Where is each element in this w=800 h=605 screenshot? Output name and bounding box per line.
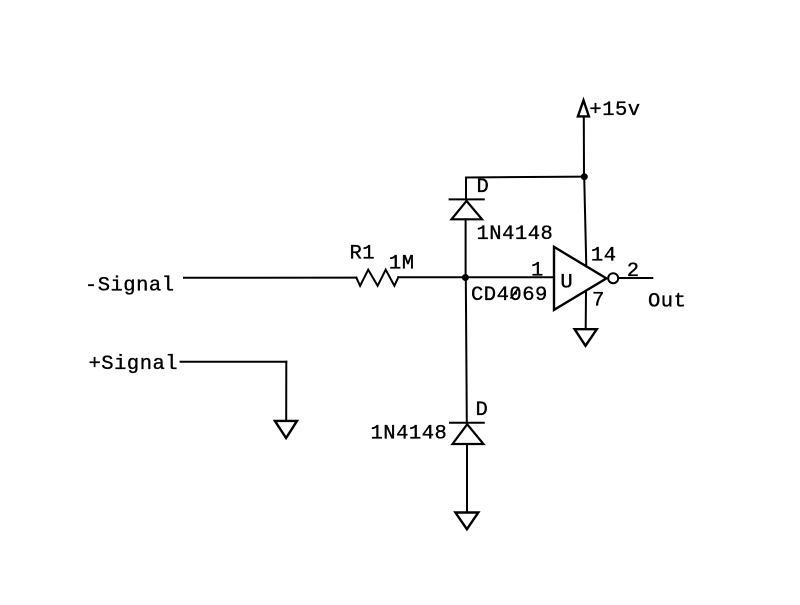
svg-text:1M: 1M — [389, 252, 415, 275]
svg-text:D: D — [477, 176, 490, 199]
svg-text:D: D — [476, 399, 489, 422]
svg-text:+15v: +15v — [589, 99, 640, 122]
svg-text:+Signal: +Signal — [89, 353, 179, 376]
svg-text:7: 7 — [592, 290, 605, 313]
svg-text:U: U — [560, 271, 573, 294]
svg-text:1N4148: 1N4148 — [477, 223, 554, 246]
svg-text:-Signal: -Signal — [85, 274, 175, 297]
svg-text:R1: R1 — [350, 243, 376, 266]
svg-text:1: 1 — [531, 259, 544, 282]
svg-text:Out: Out — [648, 291, 686, 314]
svg-text:CD4069: CD4069 — [471, 284, 548, 307]
svg-text:14: 14 — [591, 245, 617, 268]
svg-text:2: 2 — [627, 260, 640, 283]
svg-text:1N4148: 1N4148 — [371, 422, 448, 445]
